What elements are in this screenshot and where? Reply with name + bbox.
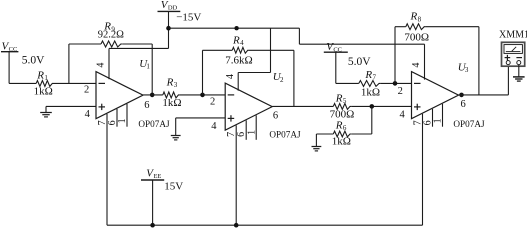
power terminal VCC (left) [1, 40, 45, 66]
ground (XMM1) [513, 65, 525, 82]
svg-text:1: 1 [246, 130, 257, 135]
ground (U2 + input) [171, 118, 225, 140]
svg-text:−15V: −15V [176, 11, 201, 23]
svg-text:700Ω: 700Ω [404, 31, 429, 43]
svg-text:15V: 15V [164, 180, 183, 192]
svg-text:5.0V: 5.0V [22, 55, 45, 67]
svg-text:R: R [232, 34, 240, 46]
svg-text:5: 5 [343, 97, 347, 105]
wire VCC2 stem [335, 52, 337, 83]
svg-text:R: R [166, 76, 174, 88]
node dot on rail [234, 26, 238, 30]
svg-text:2: 2 [84, 85, 89, 96]
U2 top power pin 4 riser to VDD rail [225, 28, 271, 90]
svg-text:OP07AJ: OP07AJ [138, 119, 170, 129]
wire top VDD rail [169, 27, 300, 29]
U1 bottom pin stub 1 [117, 104, 128, 127]
svg-text:8: 8 [418, 15, 422, 23]
wire R4 row right [249, 49, 294, 51]
svg-text:CC: CC [9, 46, 18, 53]
wire R3 to U2 pin2 [180, 94, 226, 96]
node VDD junction [166, 26, 171, 31]
svg-text:4: 4 [411, 63, 422, 68]
svg-text:R: R [335, 93, 343, 105]
wire R8 right leg down to U3 output [478, 27, 480, 95]
label U2 [273, 71, 284, 84]
svg-text:R: R [36, 69, 44, 81]
node junction R9 left leg [68, 44, 70, 83]
svg-text:R: R [335, 119, 343, 131]
wire R6 row [351, 133, 372, 135]
U2 bottom pin stub 6 [236, 120, 247, 140]
U2 bottom pin stub 1 [246, 115, 257, 140]
wire U1 out to R3 [143, 94, 163, 96]
wire R4 row left [203, 49, 233, 51]
wire R8 row right [426, 26, 479, 28]
svg-text:1: 1 [117, 118, 128, 123]
svg-text:1kΩ: 1kΩ [34, 85, 53, 97]
svg-text:7.6kΩ: 7.6kΩ [225, 54, 252, 66]
wire R9 right leg down to U1 output node [151, 44, 153, 95]
svg-text:4: 4 [225, 74, 236, 79]
multimeter XMM1 [499, 29, 527, 66]
svg-text:XMM1: XMM1 [499, 29, 527, 40]
U1 bottom pin stub 6 [107, 109, 118, 127]
svg-text:1: 1 [433, 118, 444, 123]
svg-text:1kΩ: 1kΩ [361, 86, 380, 98]
U3 bottom pin 7 riser to bottom rail [412, 114, 423, 225]
wire R7 to U3 pin2 [381, 82, 412, 84]
svg-text:EE: EE [153, 173, 161, 180]
svg-text:6: 6 [144, 100, 149, 111]
node VEE junction [150, 223, 155, 228]
U1 top power pin 4 to VDD rail [96, 28, 169, 79]
svg-text:2: 2 [210, 96, 215, 107]
svg-text:1kΩ: 1kΩ [162, 97, 181, 109]
wire R1 to U1 pin2 [54, 82, 97, 84]
wire R4 right leg down to U2 output row [293, 50, 295, 106]
svg-text:6: 6 [343, 124, 347, 132]
svg-text:1kΩ: 1kΩ [332, 135, 351, 147]
wire rail step down [298, 28, 300, 44]
node R8 left junction [393, 81, 398, 86]
wire VCC corner to R1 [9, 82, 36, 84]
wire VEE stem down [152, 180, 154, 225]
resistor R6 1k [332, 119, 352, 147]
resistor R7 1k [359, 69, 381, 99]
svg-text:2: 2 [398, 86, 403, 97]
node U1 output [150, 93, 155, 98]
power terminal VEE 15V [141, 167, 183, 192]
node U2 pin7 junction [234, 223, 239, 228]
svg-text:R: R [364, 69, 372, 81]
svg-text:3: 3 [174, 81, 178, 89]
svg-text:CC: CC [333, 47, 342, 54]
resistor R8 700ohm [404, 11, 429, 44]
wire U2 out to R5 [272, 105, 333, 107]
power terminal VCC (right) [324, 41, 371, 68]
wire R4 left leg up [202, 50, 204, 95]
svg-text:OP07AJ: OP07AJ [453, 119, 485, 129]
svg-text:4: 4 [400, 110, 406, 121]
svg-text:1: 1 [44, 74, 48, 82]
wire rail second level [299, 43, 424, 45]
label U1 [139, 58, 150, 71]
wire VCC stem down to R1 row [8, 52, 10, 84]
power terminal VDD -15V [158, 0, 202, 28]
wire R5 to U3 pin4(+) [351, 105, 411, 107]
resistor R4 7.6k [225, 34, 252, 66]
svg-text:6: 6 [461, 99, 466, 110]
resistor R1 1k [34, 69, 54, 97]
svg-text:R: R [410, 11, 418, 23]
node R4 left junction [200, 93, 205, 98]
resistor R9 92.2ohm [98, 21, 124, 47]
wire R9 to right leg [122, 43, 152, 45]
svg-text:3: 3 [465, 66, 469, 74]
svg-text:1: 1 [146, 63, 150, 71]
svg-text:6: 6 [273, 111, 278, 122]
node U3 output [459, 93, 464, 98]
svg-text:7: 7 [373, 74, 377, 82]
svg-text:4: 4 [211, 121, 217, 132]
op-amp U2 [225, 83, 272, 130]
svg-text:4: 4 [85, 109, 91, 120]
svg-text:5.0V: 5.0V [348, 56, 371, 68]
wire U3 out to XMM1 [459, 94, 509, 96]
wire R9 row left [69, 43, 101, 45]
label U3 [458, 61, 469, 74]
wire R8 left leg [394, 27, 396, 84]
svg-text:2: 2 [280, 76, 284, 84]
wire bottom VEE rail [107, 224, 423, 226]
svg-text:4: 4 [96, 63, 107, 68]
wire R6 right leg up [371, 106, 373, 134]
op-amp U3 [412, 72, 459, 119]
svg-text:4: 4 [240, 39, 244, 47]
U3 bottom pin stub 1 [433, 104, 444, 127]
svg-text:92.2Ω: 92.2Ω [98, 30, 124, 41]
ground (R6) [312, 134, 322, 151]
U2 bottom pin 7 riser to bottom rail [226, 125, 237, 225]
U3 bottom pin stub 6 [422, 109, 433, 127]
ground (U1 + input) [40, 106, 96, 117]
resistor R5 700ohm [330, 93, 355, 121]
U1 bottom pin 7 riser to bottom rail [97, 114, 108, 225]
node R5/R6 junction [370, 104, 375, 109]
resistor R3 1k [162, 76, 181, 109]
wire rail down into U3 pin4 [424, 44, 426, 79]
op-amp U1 [96, 72, 143, 119]
svg-text:OP07AJ: OP07AJ [269, 130, 301, 140]
